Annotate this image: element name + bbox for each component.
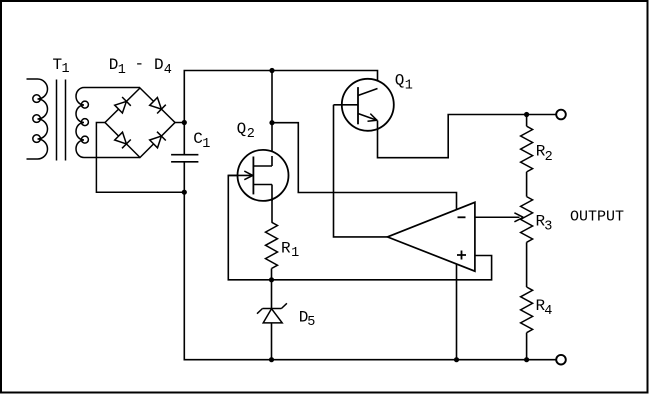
wire: Q2 base loop down to reference node, to op-amp + input bbox=[228, 175, 491, 279]
label Q2 bbox=[237, 120, 255, 142]
label R2 bbox=[536, 142, 553, 164]
resistor R1 bbox=[266, 222, 278, 268]
transformer T1 secondary winding bbox=[76, 88, 88, 158]
svg-text:R: R bbox=[281, 239, 291, 257]
potentiometer R3 bbox=[521, 197, 533, 243]
label D5 bbox=[299, 308, 316, 330]
op-amp U1 bbox=[387, 202, 475, 271]
svg-text:4: 4 bbox=[164, 63, 172, 78]
svg-text:1: 1 bbox=[291, 246, 299, 261]
label R4 bbox=[536, 297, 553, 319]
wire: D5 anode to bottom rail bbox=[271, 323, 273, 360]
svg-text:1: 1 bbox=[202, 137, 210, 152]
wire: Q1 emitter down, right and up to output top rail bbox=[378, 115, 557, 158]
transistor Q2 bbox=[228, 150, 288, 201]
junction node: C1 bottom / negative wire bbox=[182, 190, 187, 195]
label R3 bbox=[536, 213, 553, 235]
resistor R4 bbox=[521, 287, 533, 333]
wire: divider top stub bbox=[526, 115, 528, 127]
label R1 bbox=[281, 239, 299, 261]
wire: op-amp inverting input to R3 wiper bbox=[475, 213, 523, 222]
diode D4 (bottom-right edge) bbox=[150, 132, 166, 148]
label Q1 bbox=[395, 72, 413, 94]
svg-text:2: 2 bbox=[545, 150, 553, 165]
svg-text:Q: Q bbox=[395, 72, 405, 90]
junction node: bridge positive / C1 riser bbox=[182, 120, 187, 125]
wire: Q2 emitter riser to R1 bbox=[271, 185, 273, 223]
wire: branch from Q2 collector node to op-amp supply, down to bottom rail bbox=[272, 123, 457, 360]
svg-text:D: D bbox=[154, 56, 164, 74]
diode D2 (top-right edge) bbox=[150, 98, 166, 114]
wire: C1 bottom riser, bottom rail to output terminal bbox=[184, 162, 556, 360]
bridge rectifier diamond frame bbox=[105, 88, 175, 158]
wire: Q2 collector riser to top rail bbox=[271, 71, 273, 167]
wire: R2 to R3 bbox=[526, 172, 528, 197]
label D1 - D4 bbox=[109, 55, 172, 78]
zener diode D5 bbox=[257, 303, 287, 323]
diode D3 (left-bottom edge) bbox=[115, 132, 131, 148]
junction node: R1 / D5 / reference wire bbox=[269, 277, 274, 282]
junction node: R2 / output top rail bbox=[524, 112, 529, 117]
wire: R3 to R4 bbox=[526, 242, 528, 287]
junction node: op-amp supply / bottom rail bbox=[454, 357, 459, 362]
output terminal (bottom) bbox=[556, 355, 566, 365]
svg-text:1: 1 bbox=[118, 63, 126, 78]
wire: op-amp output left, up to Q1 base bbox=[334, 105, 388, 237]
transistor Q1 bbox=[334, 79, 394, 131]
diode D1 (left-top edge) bbox=[115, 97, 131, 113]
wire: positive rail (C1 top riser, top rail, down to Q1 collector) bbox=[184, 71, 377, 155]
svg-text:3: 3 bbox=[544, 220, 552, 235]
svg-text:5: 5 bbox=[307, 315, 315, 330]
svg-text:4: 4 bbox=[544, 304, 552, 319]
junction node: D5 / bottom rail bbox=[269, 357, 274, 362]
wire: reference node down to zener D5 bbox=[271, 280, 273, 309]
svg-text:1: 1 bbox=[62, 62, 70, 77]
svg-text:OUTPUT: OUTPUT bbox=[570, 209, 624, 226]
junction node: R4 / bottom rail bbox=[524, 357, 529, 362]
wire: bridge negative (left vertex) down and right to C1 bottom node bbox=[96, 123, 184, 193]
transformer T1 primary winding bbox=[27, 79, 48, 159]
label C1 bbox=[193, 130, 210, 152]
svg-text:2: 2 bbox=[247, 127, 255, 142]
wire: bridge positive stub to main rail bbox=[175, 122, 184, 124]
junction node: top rail / Q2 collector bbox=[269, 68, 274, 73]
label T1 bbox=[53, 56, 70, 77]
svg-text:-: - bbox=[135, 55, 145, 73]
wire: secondary bottom to bridge bottom vertex bbox=[84, 157, 140, 159]
output terminal (top) bbox=[556, 110, 566, 120]
wire: R1 bottom to reference node bbox=[271, 269, 273, 280]
resistor R2 bbox=[521, 126, 533, 172]
wire: R4 to bottom rail bbox=[526, 333, 528, 360]
svg-text:1: 1 bbox=[405, 79, 413, 94]
transformer T1 core bbox=[57, 80, 66, 161]
junction node: Q2 collector branch bbox=[269, 120, 274, 125]
svg-text:Q: Q bbox=[237, 120, 247, 138]
wire: secondary top to bridge top vertex bbox=[84, 87, 140, 89]
capacitor C1 bbox=[171, 155, 198, 162]
